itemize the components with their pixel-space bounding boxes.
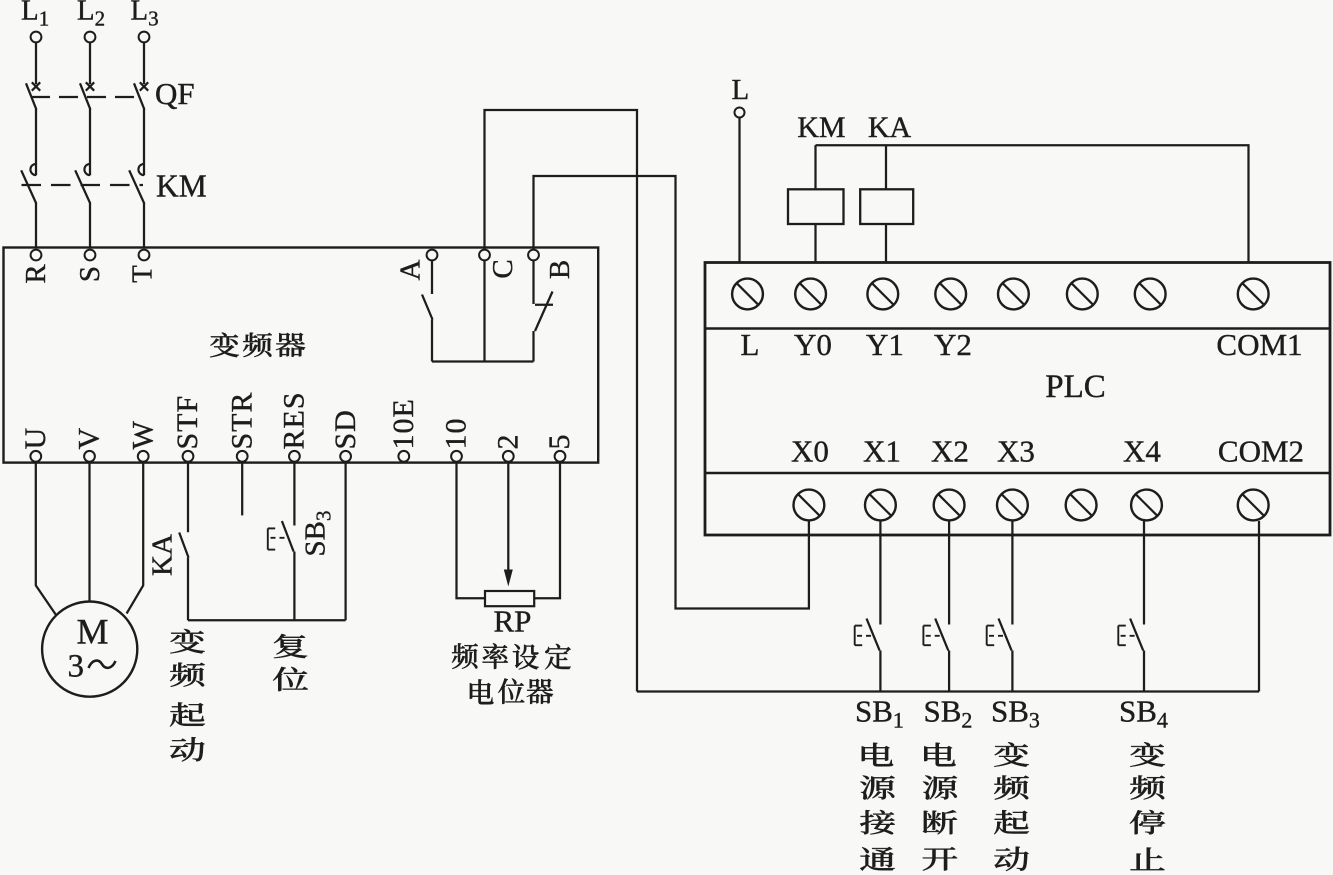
PLC top terminal 2	[795, 279, 826, 310]
svg-text:U: U	[19, 428, 52, 450]
pushbutton SB4	[1130, 619, 1143, 651]
text sb4-text char 停	[1130, 810, 1165, 834]
PLC divider top	[705, 327, 1330, 329]
wire U to motor	[36, 463, 56, 615]
wire B up and across to X0	[534, 176, 809, 609]
wire V to motor	[88, 463, 90, 602]
PLC top terminal 1	[732, 279, 763, 310]
wire pushbutton common to COM2	[637, 690, 1259, 692]
wire 10 to RP	[457, 463, 486, 599]
terminal 10	[451, 451, 462, 462]
wire 5 to RP	[534, 463, 560, 599]
PLC divider bottom	[705, 472, 1330, 474]
wire SB3b upper	[1011, 520, 1013, 625]
wire QF pole 2 to KM	[89, 109, 91, 175]
contactor KM pole 3 blade	[129, 170, 144, 203]
relay contact KA	[179, 533, 188, 558]
text sb1-text char 接	[860, 810, 895, 834]
svg-text:10: 10	[440, 418, 473, 450]
terminal U	[30, 451, 41, 462]
wire L1 to QF	[35, 42, 37, 84]
text label-pinlvsheding char 频	[452, 643, 478, 669]
terminal R	[31, 250, 42, 261]
potentiometer RP	[485, 591, 534, 606]
text sb2-text char 源	[923, 776, 957, 800]
svg-text:R: R	[20, 264, 52, 284]
coil KM	[788, 189, 844, 224]
svg-text:KA: KA	[868, 111, 912, 144]
pushbutton SB3b	[999, 619, 1012, 651]
pushbutton SB1	[867, 619, 880, 651]
svg-text:3: 3	[68, 649, 85, 685]
terminal 5	[555, 451, 566, 462]
text label-bianpinqi char 频	[243, 333, 272, 358]
svg-text:COM2: COM2	[1218, 434, 1304, 469]
svg-text:SD: SD	[329, 409, 362, 449]
wire A-C-B common	[432, 360, 534, 362]
text sb4-text char 变	[1130, 742, 1165, 766]
svg-text:KM: KM	[156, 169, 207, 204]
wire STR stub	[241, 463, 243, 516]
wire SB2 upper	[948, 520, 950, 625]
terminal V	[84, 451, 95, 462]
wire Y1 to KA coil	[885, 224, 887, 262]
text sb2-text char 开	[923, 847, 958, 871]
pushbutton SB2	[935, 619, 948, 651]
wire C to common	[483, 260, 485, 361]
text label-bianpinqi char 器	[276, 333, 305, 357]
text sb1-text char 电	[862, 743, 893, 767]
terminal C	[479, 250, 490, 261]
wire KA coil up	[885, 145, 887, 189]
text sb3-text char 起	[994, 810, 1029, 834]
terminal RES	[289, 451, 300, 462]
svg-text:T: T	[127, 265, 159, 283]
svg-text:X3: X3	[997, 434, 1035, 469]
text label-dianweiqi char 电	[470, 679, 494, 704]
wire B to common	[532, 331, 534, 362]
text label-fuwei char 位	[273, 667, 308, 691]
wire SD down	[344, 463, 346, 621]
svg-text:RES: RES	[278, 391, 311, 449]
contactor KM pole 1 blade	[21, 170, 36, 203]
terminal A	[427, 250, 438, 261]
svg-text:COM1: COM1	[1216, 327, 1302, 362]
text label-dianweiqi char 位	[498, 678, 524, 704]
svg-text:X1: X1	[863, 434, 901, 469]
wire SB1 lower	[879, 651, 881, 692]
svg-text:S: S	[74, 266, 106, 282]
svg-text:Y2: Y2	[934, 327, 972, 362]
svg-text:L: L	[732, 74, 750, 106]
pushbutton SB3 (reset)	[293, 521, 295, 526]
breaker QF pole 3 cross	[140, 82, 148, 90]
svg-text:W: W	[126, 421, 159, 450]
terminal STF	[183, 451, 194, 462]
wire L3 to QF	[143, 42, 145, 84]
text label-bianpinqi char 变	[210, 333, 239, 358]
PLC top terminal 7	[1135, 279, 1166, 310]
PLC top terminal 6	[1067, 279, 1098, 310]
terminal S	[85, 250, 96, 261]
svg-text:KA: KA	[147, 534, 179, 576]
wire SB3b lower	[1011, 651, 1013, 692]
text sb2-text char 电	[924, 743, 955, 767]
text sb3-text char 频	[994, 775, 1029, 799]
text label-pinlvsheding char 设	[513, 644, 539, 669]
wire SB4 upper	[1143, 520, 1145, 625]
svg-text:5: 5	[543, 435, 576, 450]
terminal L3	[139, 32, 150, 43]
text sb3-text char 变	[994, 742, 1029, 766]
text label-bianpinqidong char 动	[170, 737, 204, 761]
wire coils common to COM1	[816, 145, 1249, 261]
svg-text:X0: X0	[791, 434, 829, 469]
wire QF pole 3 to KM	[143, 109, 145, 175]
wire KM pole 2 to box	[89, 203, 91, 247]
wire KA to common	[187, 558, 189, 621]
wire STF-RES-SD common	[188, 619, 346, 621]
svg-text:X2: X2	[931, 434, 969, 469]
contactor KM pole 2 blade	[75, 170, 90, 203]
inverter box 变频器	[4, 248, 599, 463]
wire KM coil up	[814, 145, 816, 189]
contactor KM pole 3 arc	[138, 164, 144, 175]
svg-text:A: A	[395, 259, 427, 280]
terminal T	[139, 250, 150, 261]
svg-text:RP: RP	[493, 604, 531, 639]
svg-text:Y1: Y1	[866, 327, 904, 362]
breaker QF pole 2 cross	[86, 82, 94, 90]
wire L to PLC	[738, 118, 740, 262]
text label-pinlvsheding char 率	[482, 643, 508, 669]
wire A to common	[431, 320, 433, 362]
terminal W	[138, 451, 149, 462]
PLC bottom terminal 3	[934, 490, 965, 521]
text sb4-text char 频	[1130, 775, 1165, 799]
svg-text:KM: KM	[797, 111, 845, 144]
text sb1-text char 源	[860, 776, 895, 800]
PLC top terminal 4	[935, 279, 966, 310]
wire 2 wiper arrow	[507, 463, 509, 571]
wire SB4 lower	[1143, 651, 1145, 692]
PLC top terminal 8	[1238, 279, 1269, 310]
terminal B	[528, 250, 539, 261]
PLC bottom terminal 2	[865, 490, 896, 521]
relay contact B (NC)	[532, 260, 534, 304]
svg-text:B: B	[544, 260, 576, 279]
svg-text:PLC: PLC	[1045, 369, 1106, 405]
PLC box	[705, 263, 1330, 536]
wire STF down	[187, 463, 189, 533]
breaker QF pole 3 blade	[134, 83, 144, 109]
wire COM2 down	[1258, 521, 1260, 692]
wire SB1 upper	[879, 520, 881, 625]
svg-text:M: M	[76, 612, 108, 652]
breaker QF pole 2 blade	[80, 83, 90, 109]
svg-text:L: L	[741, 327, 760, 362]
PLC bottom terminal 1	[794, 490, 825, 521]
text sb4-text char 止	[1130, 848, 1164, 871]
svg-text:STF: STF	[171, 395, 204, 450]
terminal SD	[340, 451, 351, 462]
text label-dianweiqi char 器	[527, 679, 553, 704]
text label-pinlvsheding char 定	[545, 644, 571, 670]
terminal 2	[503, 451, 514, 462]
contactor KM pole 1 arc	[30, 164, 36, 175]
coil KA	[860, 189, 913, 224]
terminal STR	[237, 451, 248, 462]
terminal L supply	[735, 108, 745, 118]
PLC bottom terminal 6	[1131, 490, 1162, 521]
breaker QF link dashed	[31, 96, 143, 98]
breaker QF pole 1 blade	[26, 83, 36, 109]
breaker QF pole 1 cross	[32, 82, 40, 90]
text label-bianpinqidong char 变	[170, 629, 205, 653]
wire SB3 to common	[293, 552, 295, 621]
wire KM pole 3 to box	[143, 203, 145, 247]
wire W to motor	[127, 463, 144, 614]
svg-text:X4: X4	[1123, 434, 1161, 469]
wire RES down	[293, 463, 295, 526]
contactor KM link dashed	[22, 184, 144, 186]
svg-text:2: 2	[492, 435, 525, 450]
wire QF pole 1 to KM	[35, 109, 37, 175]
motor M 3~	[42, 602, 137, 697]
PLC bottom terminal 5	[1066, 490, 1097, 521]
terminal L1	[31, 32, 42, 43]
svg-text:C: C	[487, 259, 519, 278]
wire C up and across to pushbutton common	[485, 110, 638, 692]
wire Y0 to KM coil	[814, 224, 816, 262]
PLC bottom terminal 4	[997, 490, 1028, 521]
svg-text:Y0: Y0	[794, 327, 832, 362]
text sb2-text char 断	[923, 810, 957, 834]
svg-text:STR: STR	[225, 391, 258, 449]
contactor KM pole 2 arc	[84, 164, 90, 175]
PLC top terminal 5	[998, 279, 1029, 310]
wire KM pole 1 to box	[35, 203, 37, 247]
terminal 10E	[398, 451, 409, 462]
text sb1-text char 通	[860, 847, 895, 871]
PLC top terminal 3	[867, 279, 898, 310]
text label-bianpinqidong char 频	[170, 663, 205, 687]
text label-bianpinqidong char 起	[170, 702, 205, 726]
wire L2 to QF	[89, 42, 91, 84]
terminal L2	[85, 32, 96, 43]
text sb3-text char 动	[994, 847, 1028, 871]
svg-text:V: V	[73, 428, 106, 450]
PLC bottom terminal 7	[1238, 490, 1269, 521]
svg-text:QF: QF	[155, 76, 195, 111]
svg-text:10E: 10E	[387, 398, 420, 449]
wire SB2 lower	[948, 651, 950, 692]
text label-fuwei char 复	[274, 634, 307, 658]
relay contact A (NO)	[431, 260, 433, 294]
